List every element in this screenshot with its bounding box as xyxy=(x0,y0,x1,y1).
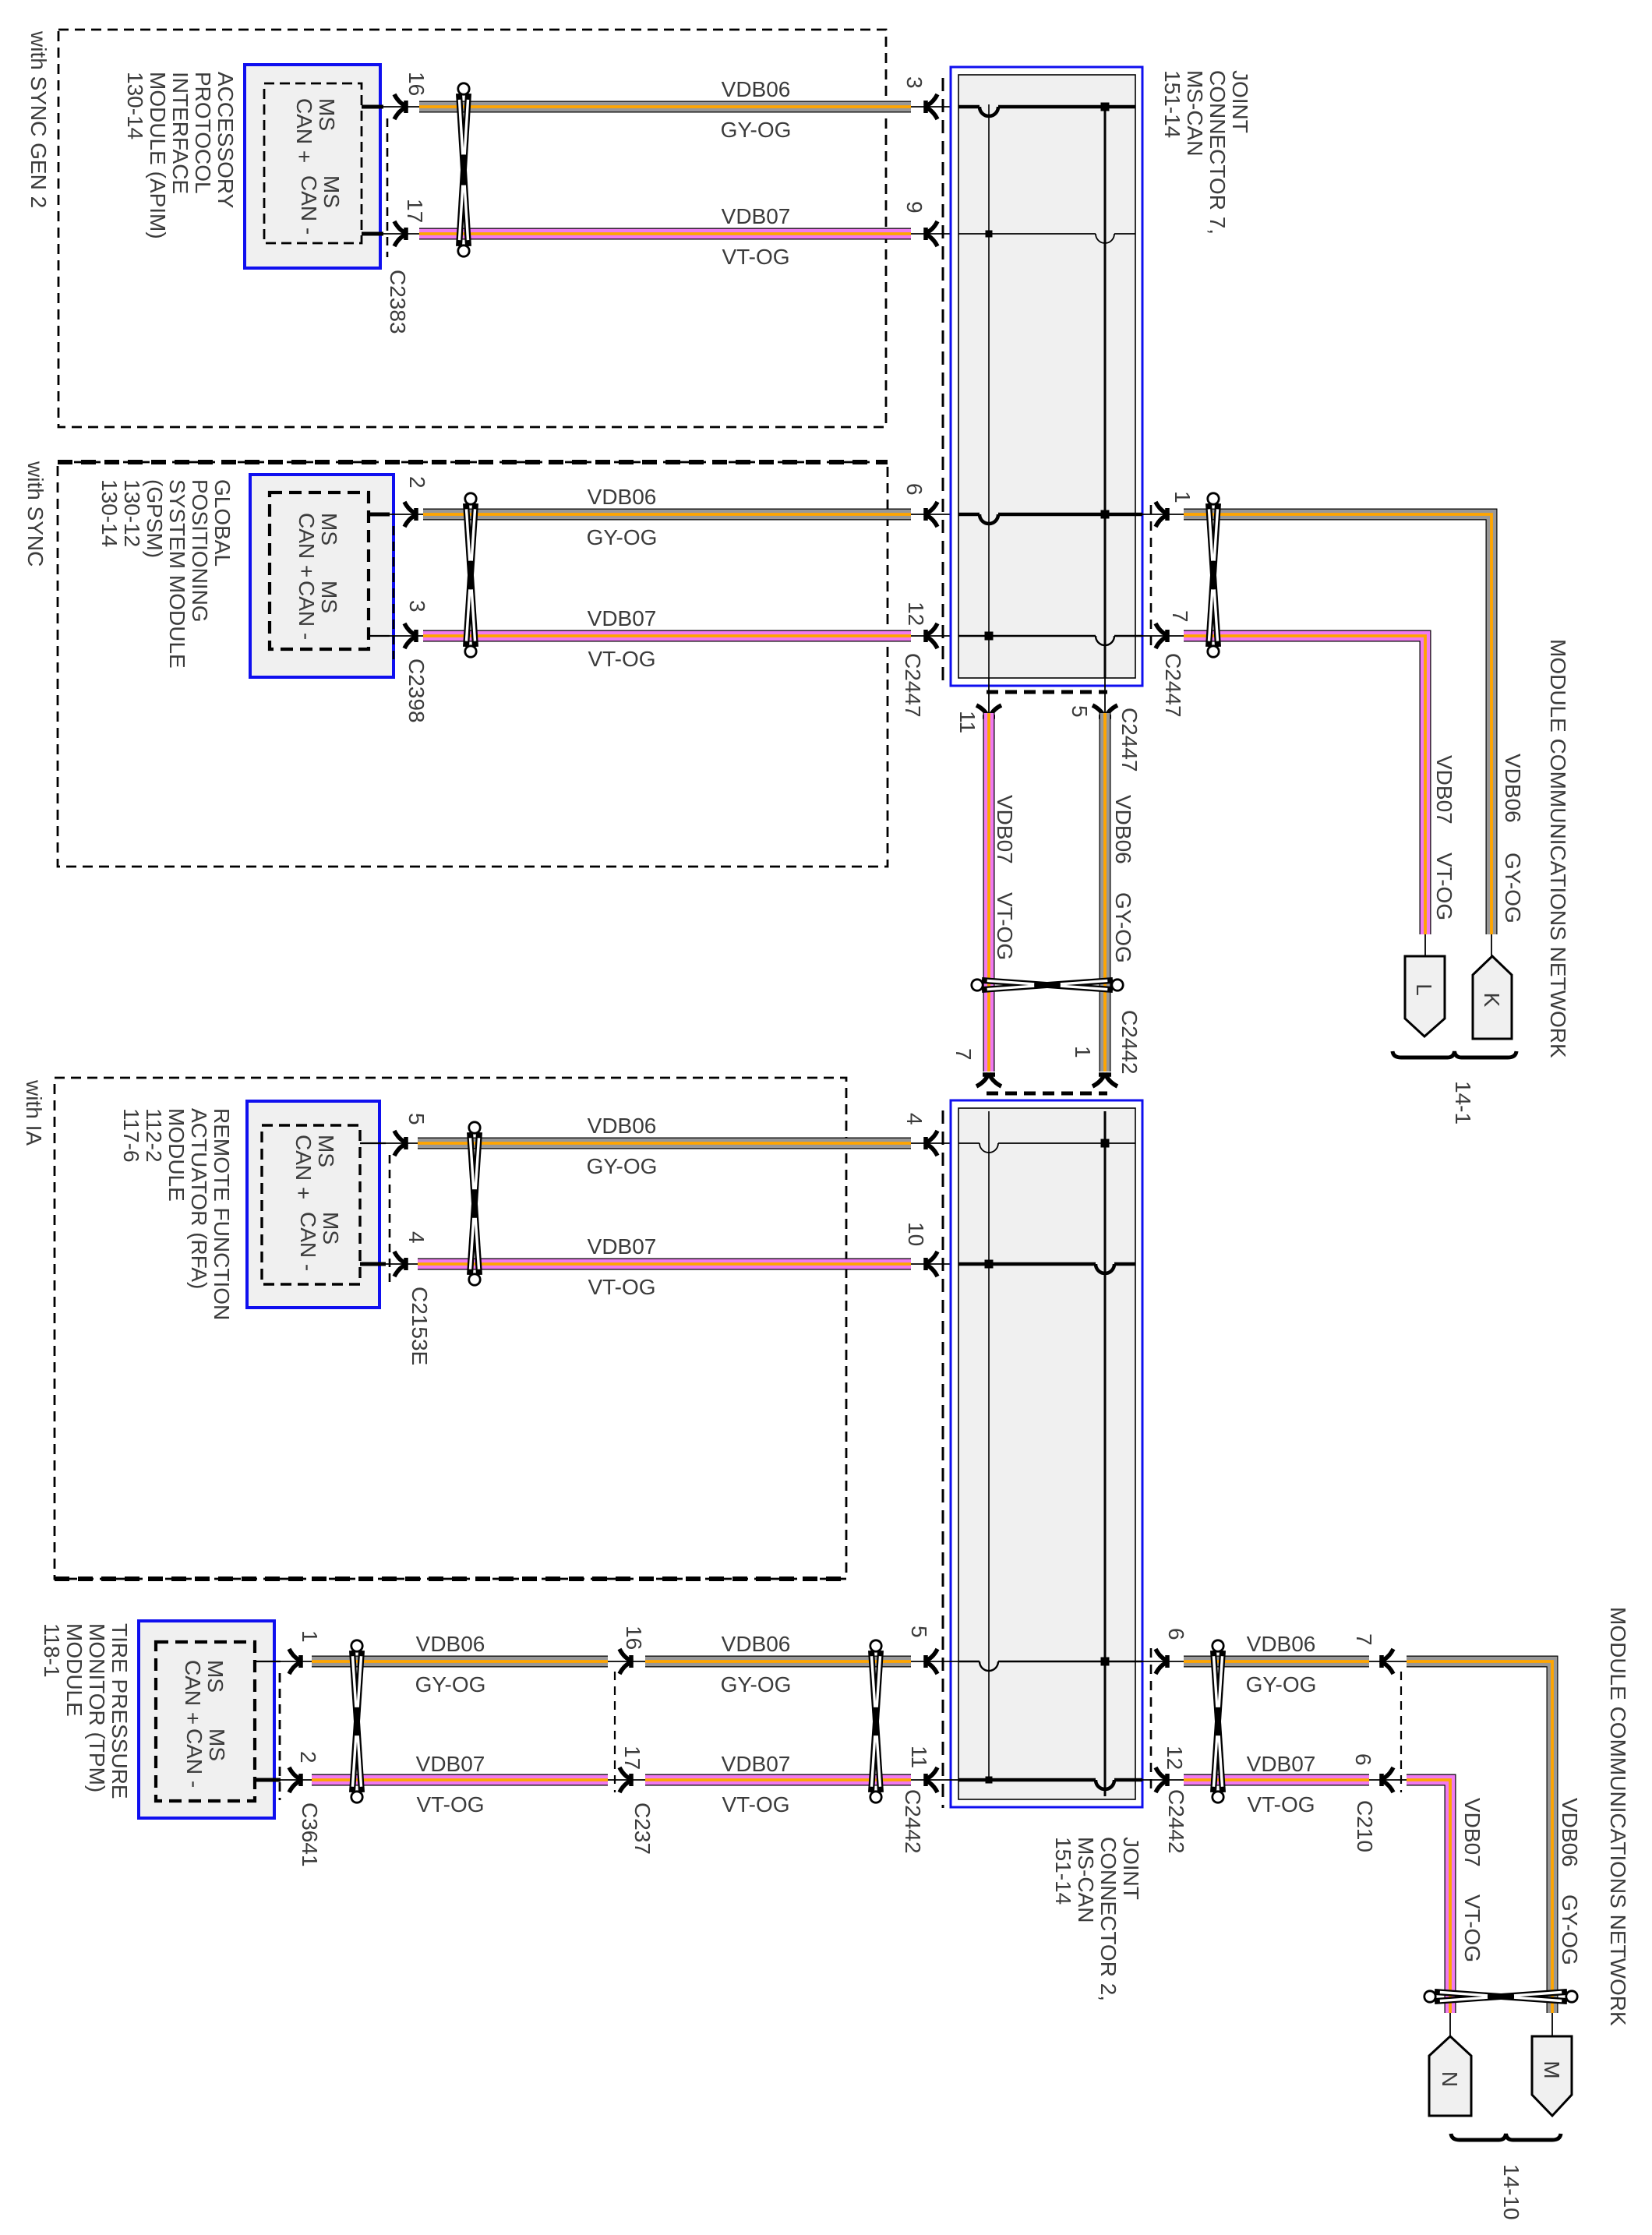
joint connector 7 outer box xyxy=(951,67,1142,686)
JC7 dashed boundary left (C2447) xyxy=(942,78,944,686)
wire label GY-OG (M drop) xyxy=(1558,1894,1582,1965)
svg-text:MS-CAN: MS-CAN xyxy=(1074,1837,1098,1923)
module RFA (REMOTE FUNCTION ACTUATOR) box xyxy=(247,1101,379,1308)
JC2 row pin11 xyxy=(958,1777,1142,1790)
wire VDB06 GY-OG (JC2 pin6 to C210) xyxy=(1184,1656,1369,1668)
pin label MS CAN - (RFA) xyxy=(296,1212,343,1271)
svg-text:VDB07: VDB07 xyxy=(588,606,657,630)
svg-text:C2442: C2442 xyxy=(1117,1010,1142,1075)
wire label VT-OG (N drop) xyxy=(1460,1894,1484,1962)
pin label MS CAN + (APIM) xyxy=(292,98,339,163)
pin number 9 (JC7) xyxy=(902,201,927,214)
svg-text:118-1: 118-1 xyxy=(40,1623,64,1678)
svg-text:3: 3 xyxy=(405,600,429,613)
module GPSM (GLOBAL POSITIONING SYSTEM MODULE) box xyxy=(250,475,394,677)
wire tail JC7 pin11 xyxy=(988,678,990,713)
svg-text:MODULE: MODULE xyxy=(164,1108,189,1202)
svg-text:MS: MS xyxy=(314,1135,338,1167)
svg-text:GY-OG: GY-OG xyxy=(1111,892,1135,963)
connector label C2442 (JC2 right) xyxy=(1164,1789,1188,1854)
net label: with SYNC GEN 2 xyxy=(26,30,51,208)
svg-text:REMOTE FUNCTION: REMOTE FUNCTION xyxy=(210,1108,234,1320)
wire VDB06 GY-OG (RFA to JC2 pin4) xyxy=(418,1138,911,1149)
svg-text:151-14: 151-14 xyxy=(1160,70,1184,138)
svg-text:with SYNC: with SYNC xyxy=(23,461,48,567)
svg-text:VT-OG: VT-OG xyxy=(722,245,789,269)
grid label 14-10 xyxy=(1499,2164,1523,2220)
connector label C2153E xyxy=(408,1287,432,1365)
pin number 7 (JC7 right) xyxy=(1168,610,1192,623)
pin number 6 (C210) xyxy=(1351,1753,1375,1766)
wire VDB06 GY-OG (JC7 pin5 to JC2 pin1) xyxy=(1100,713,1111,1072)
arrow C237 pin17 xyxy=(619,1767,633,1792)
svg-text:VT-OG: VT-OG xyxy=(993,892,1017,960)
arrow C210 pin7 xyxy=(1380,1649,1393,1674)
module APIM (ACCESSORY PROTOCOL INTERFACE MODULE) box xyxy=(245,65,380,268)
pin number 12 (JC7) xyxy=(904,602,928,626)
svg-text:with IA: with IA xyxy=(22,1079,46,1146)
svg-text:JOINT: JOINT xyxy=(1228,70,1252,133)
label RFA name xyxy=(119,1108,234,1320)
svg-text:130-14: 130-14 xyxy=(123,72,147,139)
svg-text:3: 3 xyxy=(902,76,927,89)
connector label C2447 (JC7 right) xyxy=(1161,653,1185,718)
svg-text:GY-OG: GY-OG xyxy=(587,525,658,549)
svg-text:GY-OG: GY-OG xyxy=(1501,853,1525,923)
connector label C2383 xyxy=(386,270,410,334)
pin number 5 (JC2 left) xyxy=(907,1626,931,1638)
wire label VT-OG (mid drop) xyxy=(993,892,1017,960)
arrow APIM pin17 xyxy=(394,221,408,246)
wire tail into JC7 pin6 xyxy=(911,514,958,515)
svg-text:4: 4 xyxy=(902,1113,927,1125)
pin number 1 (JC7 right) xyxy=(1170,491,1195,503)
arrow APIM pin16 xyxy=(394,94,408,119)
pin number 4 (JC2) xyxy=(902,1113,927,1125)
joint connector 7 inner box xyxy=(958,75,1135,678)
JC7 bottom dashed boundary (C2447) xyxy=(987,690,1107,694)
pin number 2 (GPSM) xyxy=(405,476,429,489)
pin stub RFA pin5 xyxy=(360,1142,421,1144)
svg-text:MODULE COMMUNICATIONS NETWORK: MODULE COMMUNICATIONS NETWORK xyxy=(1606,1607,1630,2026)
arrow TPM pin1 xyxy=(289,1649,302,1674)
svg-text:MODULE: MODULE xyxy=(62,1623,86,1717)
pin number 2 (TPM) xyxy=(296,1751,320,1764)
svg-text:ACTUATOR (RFA): ACTUATOR (RFA) xyxy=(187,1108,211,1289)
svg-text:MODULE (APIM): MODULE (APIM) xyxy=(146,72,170,239)
arrow JC2 pin1 xyxy=(1093,1073,1117,1086)
svg-text:VDB06: VDB06 xyxy=(1558,1798,1582,1867)
wire VDB07 VT-OG (C237 to JC2 pin11) xyxy=(645,1774,911,1786)
svg-text:GY-OG: GY-OG xyxy=(1246,1672,1317,1697)
arrow C237 pin16 xyxy=(619,1649,633,1674)
svg-text:GY-OG: GY-OG xyxy=(415,1672,486,1697)
offpage connector L xyxy=(1405,956,1445,1036)
svg-text:TIRE PRESSURE: TIRE PRESSURE xyxy=(108,1623,132,1799)
wire label VDB07 (L drop) xyxy=(1432,755,1456,824)
arrow JC7 pin7 xyxy=(1156,623,1169,648)
svg-text:VT-OG: VT-OG xyxy=(588,647,655,671)
wire tail to connector L xyxy=(1424,934,1426,957)
wire VDB07 VT-OG (GPSM to JC7 pin12) xyxy=(423,630,911,642)
svg-text:CAN +: CAN + xyxy=(181,1660,205,1725)
svg-text:CAN -: CAN - xyxy=(182,1728,206,1788)
svg-text:C2153E: C2153E xyxy=(408,1287,432,1365)
pin stub APIM pin17 xyxy=(362,232,421,236)
twisted pair symbol (RFA wires) xyxy=(469,1122,480,1285)
svg-text:GY-OG: GY-OG xyxy=(721,1672,792,1697)
wire tail into JC7 pin12 xyxy=(911,635,958,637)
connector label C2442 (mid drop) xyxy=(1117,1010,1142,1075)
svg-text:VDB06: VDB06 xyxy=(722,77,791,101)
arrow JC7 pin3 xyxy=(924,94,937,119)
pin number 11 (JC7 bottom) xyxy=(955,711,980,733)
wire tail out of JC2 pin6 xyxy=(1142,1661,1184,1662)
svg-text:MS: MS xyxy=(317,513,341,546)
arrow JC7 pin6 xyxy=(924,502,937,527)
wire tail out of JC7 pin7 xyxy=(1142,635,1184,637)
arrow JC2 pin10 xyxy=(924,1252,937,1276)
arrow JC2 pin6 xyxy=(1156,1649,1169,1674)
pin number 11 (JC2 left) xyxy=(907,1746,931,1768)
svg-text:ACCESSORY: ACCESSORY xyxy=(214,72,238,209)
svg-text:PROTOCOL: PROTOCOL xyxy=(191,72,215,194)
svg-text:7: 7 xyxy=(951,1048,976,1061)
pin number 4 (RFA) xyxy=(404,1231,429,1244)
connector C210 dashed line xyxy=(1400,1672,1402,1792)
svg-text:(GPSM): (GPSM) xyxy=(143,479,167,558)
svg-text:C210: C210 xyxy=(1353,1800,1377,1852)
connector C2153E dashed line xyxy=(389,1155,391,1287)
wire tail into JC7 pin9 xyxy=(911,233,958,235)
svg-text:16: 16 xyxy=(404,72,429,96)
dashed option box: with SYNC GEN 2 xyxy=(58,30,886,427)
twisted pair symbol (M/N wires) xyxy=(1424,1991,1577,2002)
svg-text:VDB07: VDB07 xyxy=(1247,1752,1316,1776)
svg-text:VT-OG: VT-OG xyxy=(1247,1792,1315,1817)
svg-text:5: 5 xyxy=(404,1113,429,1125)
wire tail C237 pin17 xyxy=(608,1779,645,1781)
svg-text:MS-CAN: MS-CAN xyxy=(1183,70,1207,156)
offpage connector K xyxy=(1473,956,1512,1039)
module TPM (TIRE PRESSURE MONITOR) box xyxy=(139,1621,274,1818)
wire tail C210 pin7 xyxy=(1369,1661,1407,1662)
wire VDB07 VT-OG (TPM to C237) xyxy=(312,1774,608,1786)
pin stub TPM pin2 xyxy=(254,1778,312,1782)
wire VDB07 VT-OG (RFA to JC2 pin10) xyxy=(418,1259,911,1270)
wire tail out of JC2 pin12 xyxy=(1142,1779,1184,1781)
wire tail into JC2 pin11 xyxy=(911,1779,958,1781)
wire VDB06 GY-OG (C237 to JC2 pin5) xyxy=(645,1656,911,1668)
JC2 row pin10 xyxy=(958,1260,1135,1274)
svg-text:VDB07: VDB07 xyxy=(588,1234,657,1259)
pin number 1 (JC2 top) xyxy=(1071,1046,1095,1058)
wire tail to connector N xyxy=(1449,2013,1451,2037)
connector label C2442 (JC2 left) xyxy=(901,1789,925,1854)
net label: with IA xyxy=(22,1079,46,1146)
svg-text:11: 11 xyxy=(907,1746,931,1768)
pin number 6 (JC7) xyxy=(902,483,927,496)
twisted pair symbol (TPM seg2) xyxy=(870,1640,881,1802)
connector label C210 xyxy=(1353,1800,1377,1852)
pin label MS CAN - (GPSM) xyxy=(295,581,341,640)
joint connector 2 outer box xyxy=(951,1100,1142,1807)
svg-text:CAN -: CAN - xyxy=(296,1212,320,1271)
svg-text:1: 1 xyxy=(1071,1046,1095,1058)
wire label GY-OG (mid drop) xyxy=(1111,892,1135,963)
svg-text:2: 2 xyxy=(296,1751,320,1764)
svg-text:5: 5 xyxy=(1068,705,1092,718)
svg-text:C2447: C2447 xyxy=(1117,708,1142,772)
JC2 name label xyxy=(1051,1837,1143,2001)
wire VDB06 GY-OG (APIM to JC7 pin3) xyxy=(419,101,911,113)
pin label MS CAN - (APIM) xyxy=(297,175,344,235)
svg-text:VDB06: VDB06 xyxy=(1247,1632,1316,1656)
wire tail into JC7 pin3 xyxy=(911,106,958,108)
twisted pair symbol (APIM wires) xyxy=(458,83,469,256)
pin number 17 (APIM) xyxy=(403,199,427,223)
net label: with SYNC xyxy=(23,461,48,567)
pin number 1 (TPM) xyxy=(298,1630,322,1643)
arrow JC7 pin11 xyxy=(976,705,1001,719)
net label MODULE COMMUNICATIONS NETWORK (bottom) xyxy=(1606,1607,1630,2026)
svg-text:VT-OG: VT-OG xyxy=(722,1792,789,1817)
connector C2398 dashed line xyxy=(393,526,395,659)
label TPM name xyxy=(40,1623,132,1799)
arrow JC2 pin7 xyxy=(976,1073,1001,1086)
arrow JC2 pin5 xyxy=(924,1649,937,1674)
arrow GPSM pin2 xyxy=(404,502,418,527)
connector label C2398 xyxy=(404,658,429,723)
pin number 7 (C210) xyxy=(1352,1633,1376,1646)
svg-text:130-12: 130-12 xyxy=(120,479,144,547)
wire VDB07 VT-OG (JC7 pin11 to JC2 pin7) xyxy=(983,713,995,1072)
arrow JC2 pin11 xyxy=(924,1767,937,1792)
svg-text:VT-OG: VT-OG xyxy=(416,1792,484,1817)
svg-text:VT-OG: VT-OG xyxy=(1432,853,1456,920)
JC7 row pin3 xyxy=(958,103,1135,117)
svg-text:117-6: 117-6 xyxy=(119,1108,143,1163)
svg-text:K: K xyxy=(1480,993,1504,1008)
connector label C237 xyxy=(630,1802,655,1855)
connector label C2447 (below pin5) xyxy=(1117,708,1142,772)
svg-text:112-2: 112-2 xyxy=(142,1108,166,1163)
twisted pair symbol (JC2 right wires) xyxy=(1213,1640,1223,1802)
arrow JC7 pin9 xyxy=(924,221,937,246)
svg-text:5: 5 xyxy=(907,1626,931,1638)
pin number 3 (JC7) xyxy=(902,76,927,89)
svg-text:10: 10 xyxy=(904,1222,928,1246)
svg-text:6: 6 xyxy=(1164,1628,1188,1640)
JC2 top dashed boundary (C2442) xyxy=(987,1092,1107,1096)
svg-text:2: 2 xyxy=(405,476,429,489)
svg-text:6: 6 xyxy=(1351,1753,1375,1766)
JC2 dashed boundary right (C2442) xyxy=(1150,1648,1153,1792)
svg-text:GY-OG: GY-OG xyxy=(721,118,792,142)
svg-text:N: N xyxy=(1438,2071,1462,2087)
svg-text:VDB07: VDB07 xyxy=(1460,1798,1484,1867)
svg-text:1: 1 xyxy=(298,1630,322,1643)
wire VDB07 VT-OG (JC2 pin12 to C210) xyxy=(1184,1774,1369,1786)
JC7 left bus bar xyxy=(988,104,990,678)
connector label C2447 (JC7 left) xyxy=(901,653,925,718)
wire tail into JC2 pin5 xyxy=(911,1661,958,1662)
pin number 16 (C237) xyxy=(622,1626,646,1650)
grid label 14-1 xyxy=(1451,1081,1475,1125)
JC2 right bus bar xyxy=(1104,1111,1107,1796)
wire VDB06 GY-OG (C210 to connector M) xyxy=(1407,1661,1552,2013)
svg-text:MS: MS xyxy=(317,581,341,613)
JC7 right bus bar xyxy=(1104,104,1107,678)
svg-text:7: 7 xyxy=(1168,610,1192,623)
offpage connector M xyxy=(1532,2036,1572,2116)
wire VDB07 VT-OG (C210 to connector N) xyxy=(1407,1780,1450,2013)
brace under K/L xyxy=(1393,1051,1516,1057)
pin number 12 (JC2 right) xyxy=(1163,1746,1187,1770)
svg-text:VDB06: VDB06 xyxy=(588,1114,657,1138)
pin stub TPM pin1 xyxy=(254,1661,312,1662)
svg-text:130-14: 130-14 xyxy=(97,479,122,547)
svg-text:C2442: C2442 xyxy=(901,1789,925,1854)
wire label VT-OG (L drop) xyxy=(1432,853,1456,920)
pin number 6 (JC2 right) xyxy=(1164,1628,1188,1640)
wire tail C210 pin6 xyxy=(1369,1779,1407,1781)
svg-text:VT-OG: VT-OG xyxy=(1460,1894,1484,1962)
JC2 row pin5 xyxy=(958,1658,1142,1672)
svg-text:VDB07: VDB07 xyxy=(722,1752,791,1776)
pin number 5 (RFA) xyxy=(404,1113,429,1125)
svg-text:C3641: C3641 xyxy=(298,1802,322,1867)
wire label VDB06 (K drop) xyxy=(1501,754,1525,823)
svg-text:17: 17 xyxy=(403,199,427,223)
wire tail out of JC7 pin1 xyxy=(1142,514,1184,515)
svg-text:GLOBAL: GLOBAL xyxy=(210,479,235,567)
svg-text:MODULE COMMUNICATIONS NETWORK: MODULE COMMUNICATIONS NETWORK xyxy=(1546,639,1570,1058)
JC7 row pin9 xyxy=(958,231,1135,244)
JC7 dashed boundary right (C2447) xyxy=(1150,505,1153,645)
svg-text:CAN +: CAN + xyxy=(295,513,319,577)
pin label MS CAN + (GPSM) xyxy=(295,513,341,577)
svg-text:7: 7 xyxy=(1352,1633,1376,1646)
wire VDB06 GY-OG (GPSM to JC7 pin6) xyxy=(423,509,911,521)
arrow GPSM pin3 xyxy=(404,623,418,648)
svg-text:C2398: C2398 xyxy=(404,658,429,723)
svg-text:SYSTEM MODULE: SYSTEM MODULE xyxy=(165,479,189,669)
svg-text:JOINT: JOINT xyxy=(1119,1837,1143,1900)
svg-text:VDB06: VDB06 xyxy=(416,1632,485,1656)
svg-text:MS: MS xyxy=(205,1728,229,1761)
arrow JC2 pin4 xyxy=(924,1131,937,1156)
svg-text:CAN +: CAN + xyxy=(292,98,316,163)
twisted pair symbol (mid drop) xyxy=(972,980,1123,990)
twisted pair symbol (GPSM wires) xyxy=(465,493,476,657)
offpage connector N xyxy=(1429,2036,1471,2116)
svg-text:MS: MS xyxy=(315,98,339,131)
wire label VDB06 (M drop) xyxy=(1558,1798,1582,1867)
net label MODULE COMMUNICATIONS NETWORK (top) xyxy=(1546,639,1570,1058)
arrow JC7 pin12 xyxy=(924,623,937,648)
arrow JC2 pin12 xyxy=(1156,1767,1169,1792)
wire label GY-OG (K drop) xyxy=(1501,853,1525,923)
JC2 dashed boundary left (C2442) xyxy=(942,1110,944,1808)
connector C237 dashed line xyxy=(614,1672,616,1792)
JC7 row pin12 xyxy=(958,632,1142,646)
svg-text:VDB06: VDB06 xyxy=(588,485,657,509)
pin number 3 (GPSM) xyxy=(405,600,429,613)
svg-text:CAN -: CAN - xyxy=(297,175,321,235)
svg-text:1: 1 xyxy=(1170,491,1195,503)
svg-text:with SYNC GEN 2: with SYNC GEN 2 xyxy=(26,30,51,208)
svg-text:POSITIONING: POSITIONING xyxy=(188,479,212,623)
arrow C210 pin6 xyxy=(1380,1767,1393,1792)
svg-text:MS: MS xyxy=(319,1212,343,1245)
svg-text:C2447: C2447 xyxy=(1161,653,1185,718)
arrow TPM pin2 xyxy=(289,1767,302,1792)
wire tail to connector M xyxy=(1551,2013,1553,2037)
JC7 row pin6 xyxy=(958,510,1142,524)
arrow JC7 pin5 xyxy=(1093,705,1117,719)
JC7 name label xyxy=(1160,70,1252,235)
connector C3641 dashed line xyxy=(279,1673,281,1800)
svg-text:VDB06: VDB06 xyxy=(1501,754,1525,823)
svg-text:CAN +: CAN + xyxy=(291,1135,316,1199)
arrow RFA pin5 xyxy=(394,1131,408,1156)
wire tail into JC2 pin10 xyxy=(911,1263,958,1265)
connector C2383 dashed line xyxy=(387,118,389,257)
svg-text:11: 11 xyxy=(955,711,980,733)
svg-text:CONNECTOR 7,: CONNECTOR 7, xyxy=(1205,70,1230,235)
svg-text:GY-OG: GY-OG xyxy=(1558,1894,1582,1965)
pin stub GPSM pin3 xyxy=(369,635,425,637)
svg-text:VDB07: VDB07 xyxy=(1432,755,1456,824)
joint connector 2 inner box xyxy=(958,1108,1135,1799)
pin stub APIM pin16 xyxy=(362,105,421,109)
pin stub GPSM pin2 xyxy=(369,513,425,517)
twisted pair symbol (TPM wires) xyxy=(351,1640,362,1802)
svg-text:MS: MS xyxy=(319,175,344,208)
svg-text:CONNECTOR 2,: CONNECTOR 2, xyxy=(1096,1837,1121,2001)
svg-text:VDB07: VDB07 xyxy=(993,795,1017,864)
pin number 16 (APIM) xyxy=(404,72,429,96)
pin number 17 (C237) xyxy=(620,1746,644,1770)
wire VDB06 GY-OG (JC7 pin1 to connector K) xyxy=(1184,514,1491,934)
svg-text:VDB06: VDB06 xyxy=(722,1632,791,1656)
svg-text:151-14: 151-14 xyxy=(1051,1837,1075,1905)
twisted pair symbol (K/L wires) xyxy=(1208,493,1219,657)
svg-text:14-10: 14-10 xyxy=(1499,2164,1523,2220)
wire tail C237 pin16 xyxy=(608,1661,645,1662)
wire label VDB07 (N drop) xyxy=(1460,1798,1484,1867)
dashed option box: with SYNC xyxy=(58,462,888,867)
wire VDB07 VT-OG (APIM to JC7 pin9) xyxy=(419,228,911,240)
pin label MS CAN - (TPM) xyxy=(182,1728,229,1788)
JC2 left bus bar xyxy=(988,1111,990,1780)
svg-text:C237: C237 xyxy=(630,1802,655,1855)
svg-text:16: 16 xyxy=(622,1626,646,1650)
brace under M/N xyxy=(1451,2134,1561,2140)
svg-text:L: L xyxy=(1412,983,1436,996)
wire tail JC7 pin5 xyxy=(1104,678,1106,713)
svg-text:12: 12 xyxy=(904,602,928,626)
svg-text:17: 17 xyxy=(620,1746,644,1770)
pin label MS CAN + (TPM) xyxy=(181,1660,228,1725)
pin number 7 (JC2 top) xyxy=(951,1048,976,1061)
wire label VDB06 (mid drop) xyxy=(1111,795,1135,864)
svg-text:9: 9 xyxy=(902,201,927,214)
pin stub RFA pin4 xyxy=(360,1262,421,1266)
connector label C3641 xyxy=(298,1802,322,1867)
dashed option box: with IA xyxy=(55,1078,846,1579)
